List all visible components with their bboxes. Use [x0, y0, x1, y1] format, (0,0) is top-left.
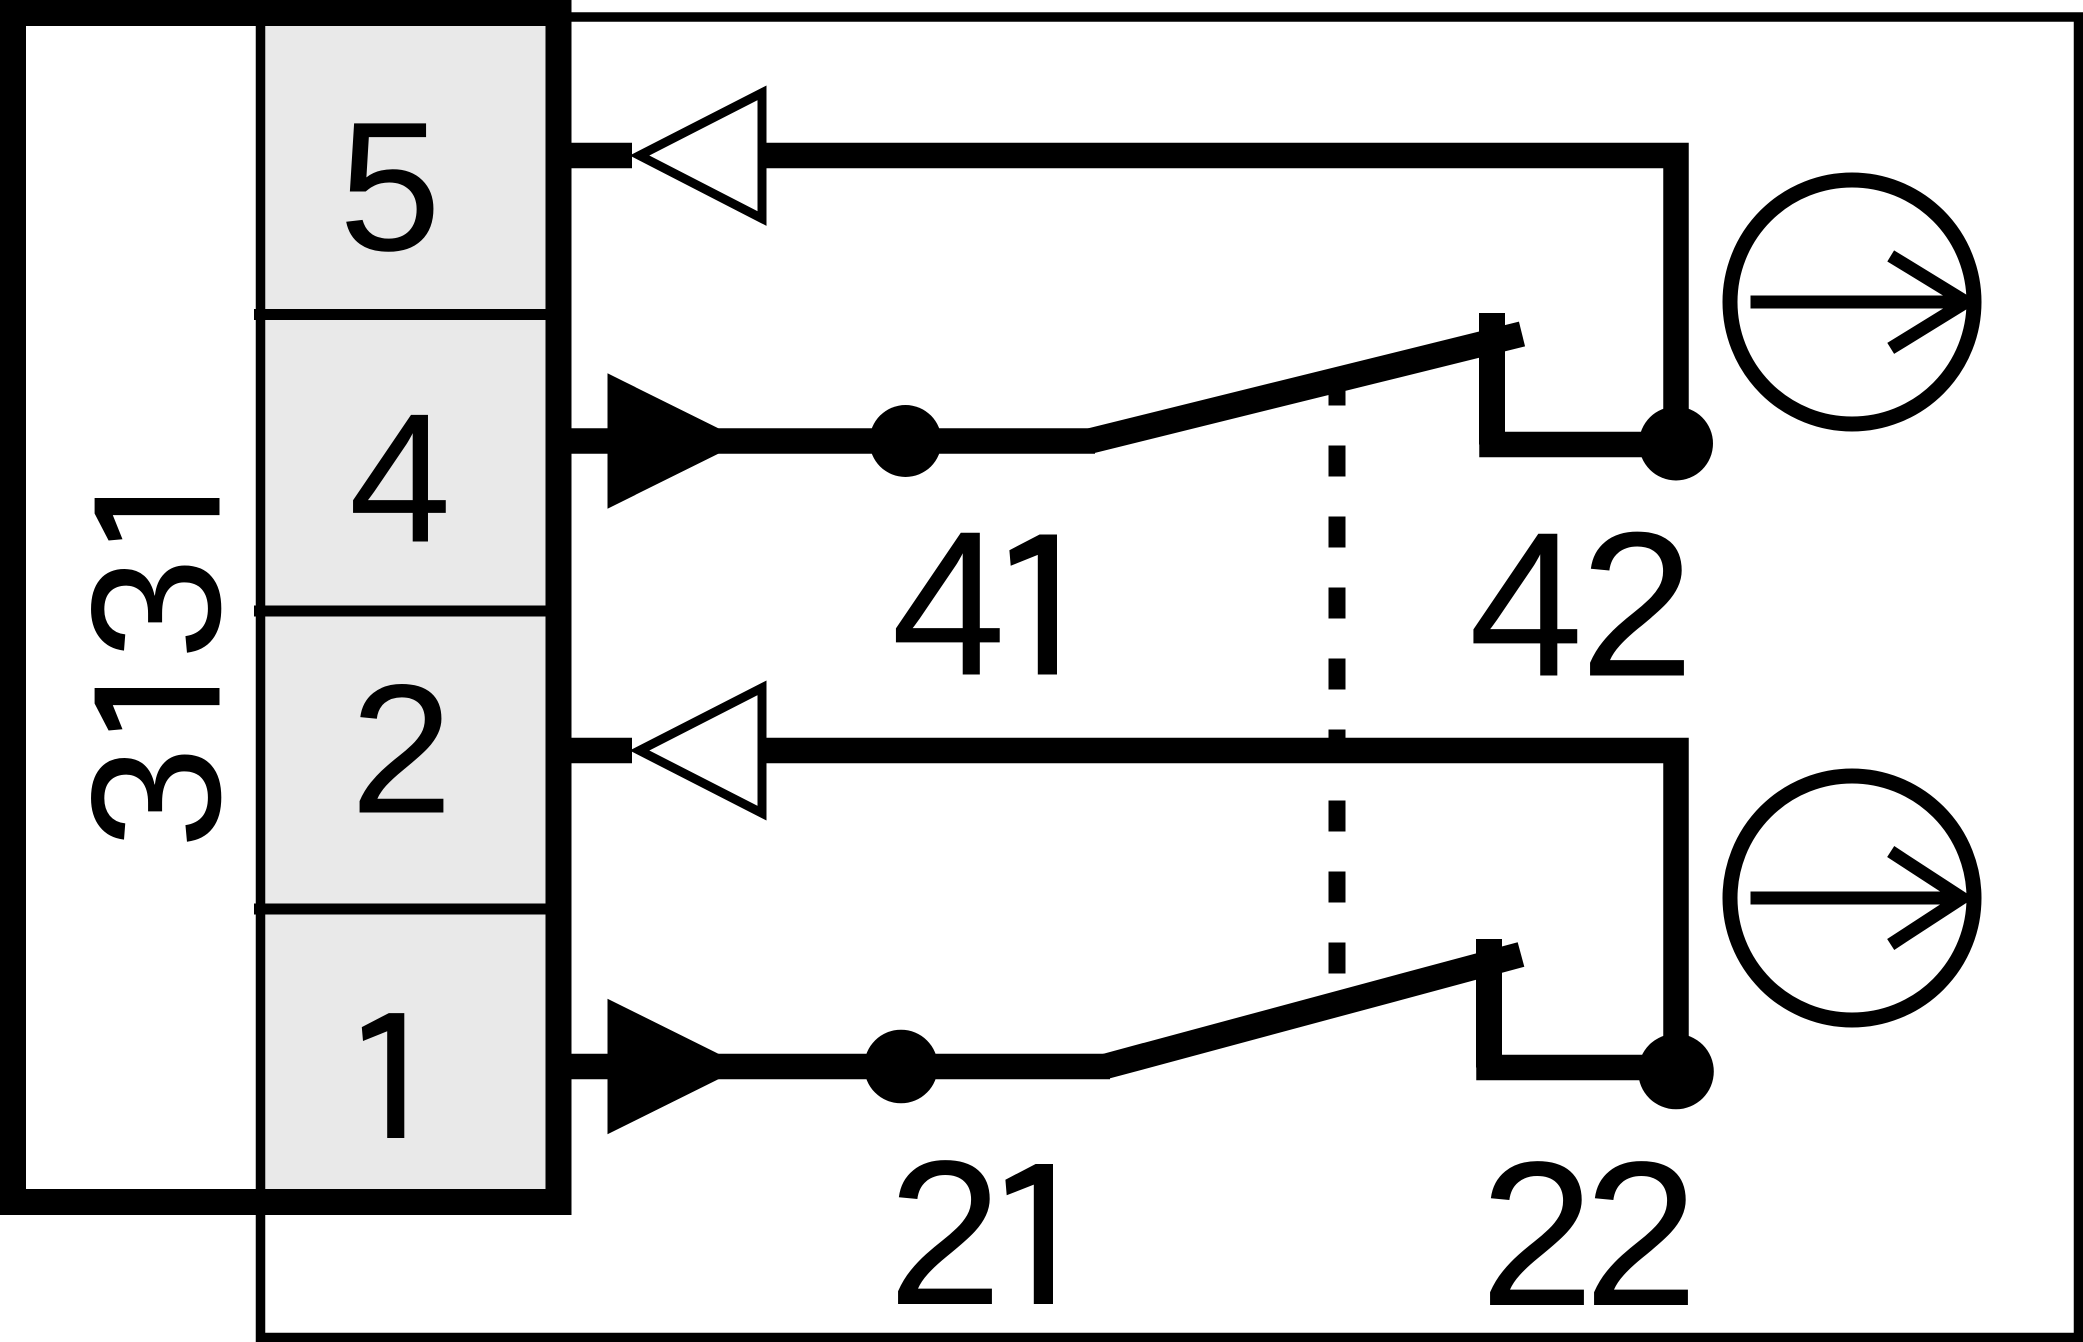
cell divider 2/1: [254, 904, 558, 915]
open arrow terminal 2: [640, 688, 763, 813]
filled arrow terminal 1: [608, 999, 745, 1135]
device label 3131 digit 1 upper: [95, 498, 220, 541]
svg-text:2: 2: [1580, 490, 1695, 720]
device label 3131 digit 1 lower: [95, 688, 220, 731]
svg-text:2: 2: [350, 646, 452, 852]
node 21 junction dot: [864, 1030, 938, 1104]
svg-text:2: 2: [1480, 1119, 1595, 1342]
terminal block outer box: [13, 13, 559, 1202]
contact tip bar 21: [1476, 939, 1502, 1068]
node 42 junction dot: [1639, 407, 1713, 481]
contact tip bar 41: [1479, 313, 1505, 445]
actuator symbol top circle: [1730, 180, 1974, 424]
actuator symbol top arrow: [1751, 296, 1957, 309]
svg-text:5: 5: [339, 83, 441, 289]
svg-text:2: 2: [888, 1118, 1003, 1342]
actuator symbol bottom circle: [1730, 776, 1974, 1020]
svg-text:2: 2: [1584, 1119, 1699, 1342]
actuator symbol bottom arrow: [1751, 892, 1953, 905]
terminal strip background: [259, 26, 546, 1189]
terminal 1 label: [362, 1013, 405, 1138]
contact lever 21-22: [1105, 955, 1521, 1067]
svg-text:3: 3: [53, 557, 259, 659]
wire terminal 1: [560, 1054, 1110, 1080]
cell divider 5/4: [254, 309, 558, 320]
wire terminal 4: [560, 428, 1095, 454]
wire terminal 2 to node 22: [560, 751, 1676, 1071]
open arrow terminal 5: [640, 93, 763, 219]
contact lever 41-42: [1090, 334, 1522, 441]
fixed contact bracket 22: [1489, 1063, 1676, 1068]
filled arrow terminal 4: [608, 373, 745, 508]
svg-text:4: 4: [349, 375, 451, 581]
svg-text:3: 3: [53, 746, 259, 848]
node 22 junction dot: [1638, 1034, 1714, 1110]
fixed contact bracket 42: [1492, 440, 1676, 445]
svg-text:4: 4: [1469, 490, 1584, 720]
wire terminal 5 to node 42: [560, 156, 1676, 444]
cell divider 4/2: [254, 606, 558, 617]
dashed linkage line: [1329, 375, 1346, 975]
node 41 junction dot: [870, 405, 942, 477]
svg-text:4: 4: [891, 489, 1006, 719]
